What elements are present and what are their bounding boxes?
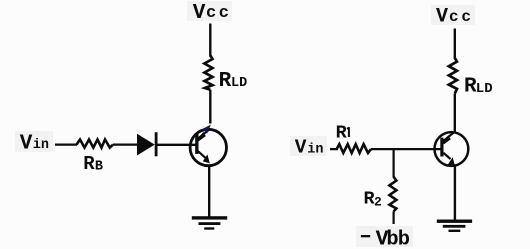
label R1 [336,122,349,143]
svg-text:bb: bb [386,229,409,249]
svg-text:V: V [193,2,206,25]
label RLD (right) [464,76,493,99]
ground (left) [192,216,227,230]
collector current arrow (blue) on Q1 [203,125,211,134]
transistor Q2 (right, NPN) [435,132,469,166]
svg-text:V: V [20,132,33,155]
resistor RLD (left) [204,55,212,89]
wire R1 to base (right) [371,148,441,150]
wire Vcc to RLD (left) [209,24,211,57]
resistor RB [77,140,114,148]
wire RLD to collector (right) [454,94,456,134]
svg-text:LD: LD [476,81,493,97]
resistor R1 [337,144,371,153]
svg-text:2: 2 [374,194,382,209]
wire RLD to collector (left) [209,90,211,124]
wire Vin to RB [55,143,77,145]
label RLD (left) [219,70,248,93]
svg-text:LD: LD [231,76,247,91]
node Vcc (right) [431,5,475,29]
transistor Q1 (left, NPN) [190,129,226,166]
wire emitter to ground (left) [208,165,210,218]
svg-text:R: R [219,70,232,93]
svg-text:in: in [307,142,323,157]
node Vcc (left) [187,1,232,25]
svg-text:V: V [295,137,307,159]
node Vin (left) [15,131,53,155]
resistor R2 [389,177,396,212]
svg-text:B: B [95,159,103,174]
label R2 [364,189,383,210]
wire Vcc to RLD (right) [454,29,456,60]
wire emitter to ground (right) [454,166,456,220]
wire diode to base (left) [158,144,197,146]
wire Vin to R1 [330,148,338,150]
wire R2 to -Vbb [393,211,395,224]
node -Vbb [356,226,413,249]
svg-text:in: in [33,138,49,153]
svg-text:cc: cc [449,8,474,26]
ground (right) [437,220,472,233]
diode D1 [137,132,158,156]
svg-text:R: R [83,153,95,175]
svg-text:cc: cc [206,4,232,23]
svg-text:R: R [336,122,348,143]
node Vin (right) [290,136,327,159]
label RB [83,153,103,175]
resistor RLD (right) [449,58,457,94]
wire RB to diode [113,143,138,145]
svg-text:V: V [436,6,448,29]
node base junction (right) [393,149,395,177]
